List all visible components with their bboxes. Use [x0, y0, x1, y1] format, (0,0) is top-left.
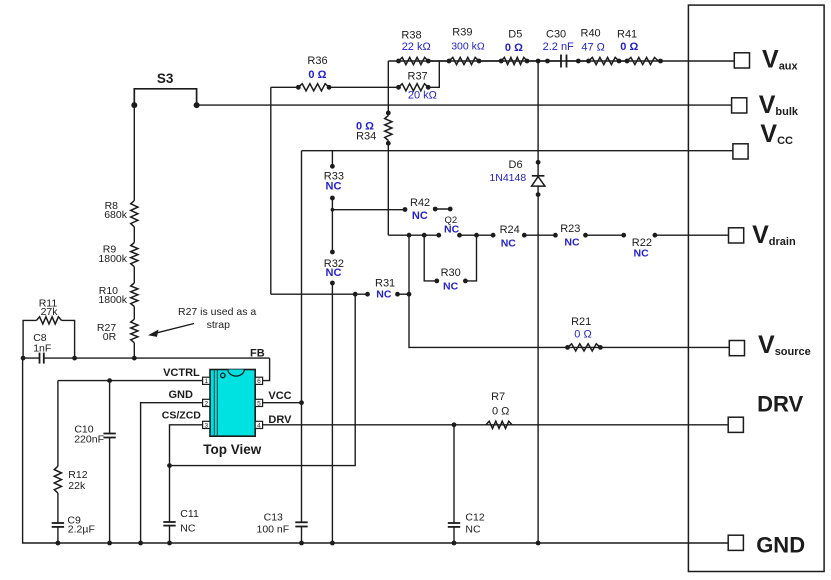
wire GND rail — [23, 358, 729, 543]
wire VCTRL to R12 — [57, 381, 59, 467]
wire D6 vertical — [537, 61, 539, 176]
resistor R8 — [131, 201, 138, 227]
svg-text:R23: R23 — [560, 223, 580, 235]
svg-text:3: 3 — [204, 422, 208, 429]
resistor R39 — [449, 57, 479, 64]
wire R23 to R22 — [586, 234, 624, 236]
svg-text:1800k: 1800k — [98, 253, 127, 265]
wire R36 left vertical — [270, 87, 272, 294]
junction C13 GND — [299, 541, 304, 546]
svg-text:1N4148: 1N4148 — [489, 172, 526, 184]
wire R12 to C9 — [57, 493, 59, 523]
svg-text:0 Ω: 0 Ω — [492, 406, 509, 418]
svg-text:strap: strap — [207, 319, 231, 331]
svg-text:NC: NC — [412, 210, 428, 222]
pad DRV — [728, 417, 743, 432]
pin 1 — [203, 377, 210, 384]
resistor R27 — [131, 319, 138, 343]
svg-text:R36: R36 — [307, 55, 327, 67]
transistor Q2 (NC) — [436, 233, 441, 238]
junction C10 top — [107, 378, 112, 383]
wire D5-C30 — [527, 60, 561, 62]
svg-text:GND: GND — [756, 533, 805, 558]
pin 3 — [203, 421, 210, 428]
resistor R7 — [486, 421, 512, 428]
wire DRV rail — [263, 424, 729, 426]
svg-text:4: 4 — [257, 422, 261, 429]
resistor R10 — [131, 283, 138, 307]
capacitor C12 (NC) — [452, 422, 457, 427]
junction D6 GND — [536, 541, 541, 546]
resistor R22 (NC) — [621, 233, 626, 238]
wire divider chain vertical — [133, 105, 135, 200]
junction C11 GND — [167, 541, 172, 546]
wire R42 row — [332, 209, 405, 211]
svg-text:27k: 27k — [41, 306, 59, 318]
wire S3 step — [134, 89, 196, 105]
svg-text:2.2 nF: 2.2 nF — [543, 41, 574, 53]
junction R33 bottom tee — [331, 208, 335, 212]
wire C9 to GND — [57, 527, 59, 543]
wire R38-R39 — [428, 60, 449, 62]
wire R40-R41 — [619, 60, 627, 62]
pad VCC — [733, 144, 748, 159]
svg-text:NC: NC — [465, 523, 481, 535]
wire CS link to R31 row — [170, 294, 356, 465]
pin 4 — [255, 421, 262, 428]
svg-text:CS/ZCD: CS/ZCD — [162, 410, 202, 422]
junction R11 left — [21, 356, 26, 361]
svg-text:300 kΩ: 300 kΩ — [451, 41, 485, 53]
capacitor C13 — [295, 521, 307, 523]
svg-text:NC: NC — [634, 247, 650, 259]
svg-text:DRV: DRV — [757, 392, 803, 417]
junction CS C11 — [167, 463, 172, 468]
svg-text:2.2µF: 2.2µF — [68, 524, 95, 536]
capacitor C10 — [109, 381, 111, 434]
svg-text:NC: NC — [180, 522, 196, 534]
junction pin5 VCC — [299, 400, 304, 405]
svg-text:1nF: 1nF — [33, 343, 51, 355]
svg-text:NC: NC — [564, 236, 580, 248]
svg-text:C13: C13 — [264, 512, 283, 524]
svg-text:R40: R40 — [581, 27, 601, 39]
wire FB to pin6 — [263, 358, 270, 381]
svg-text:Top View: Top View — [203, 442, 262, 457]
junction C10 GND — [107, 541, 112, 546]
junction C9 GND — [56, 541, 61, 546]
wire R24 to R23 — [524, 234, 555, 236]
svg-text:1800k: 1800k — [98, 294, 127, 306]
junction pin2 GND rail — [138, 541, 143, 546]
svg-text:R30: R30 — [441, 267, 461, 279]
svg-text:0 Ω: 0 Ω — [308, 69, 326, 81]
junction C12 GND — [452, 541, 457, 546]
junction R11 right — [72, 356, 77, 361]
wire pin3 CS/ZCD net — [170, 425, 203, 466]
svg-text:20 kΩ: 20 kΩ — [408, 89, 437, 101]
wire Vbulk rail — [197, 104, 732, 106]
svg-text:R34: R34 — [356, 131, 376, 143]
resistor R31 (NC) — [365, 292, 370, 297]
svg-text:0 Ω: 0 Ω — [505, 42, 523, 54]
capacitor C30 — [545, 59, 550, 64]
wire R33/R32 vertical — [331, 151, 333, 167]
pin 6 — [255, 377, 262, 384]
annotation arrow — [154, 324, 194, 334]
wire R39-D5 — [479, 60, 501, 62]
pad Vaux — [734, 53, 749, 68]
svg-text:NC: NC — [444, 223, 460, 235]
wire pin5 to VCC — [263, 402, 302, 404]
wire VCC vertical — [301, 151, 303, 523]
junction R31 right tee — [407, 292, 412, 297]
svg-text:R42: R42 — [410, 197, 430, 209]
diode D6 — [536, 160, 541, 165]
resistor R24 (NC) — [491, 233, 496, 238]
svg-text:0R: 0R — [103, 331, 117, 343]
svg-text:C30: C30 — [546, 29, 566, 41]
wire FB line — [23, 357, 39, 359]
resistor R40 — [589, 57, 620, 64]
svg-text:R21: R21 — [571, 316, 591, 328]
svg-text:0 Ω: 0 Ω — [620, 41, 638, 53]
wire R37 right leg — [428, 61, 439, 87]
wire R31 row — [271, 293, 368, 295]
wire C30-R40 — [567, 60, 589, 62]
resistor R38 — [399, 57, 429, 64]
svg-text:GND: GND — [169, 389, 194, 401]
svg-text:R7: R7 — [491, 391, 505, 403]
resistor R41 — [627, 57, 658, 64]
svg-text:22k: 22k — [68, 480, 86, 492]
pin 2 — [203, 399, 210, 406]
wire VCC rail — [302, 150, 733, 152]
op-amp U1 controller (Top View) — [210, 370, 255, 437]
wire pin2 GND net — [141, 403, 203, 543]
resistor R23 (NC) — [553, 233, 558, 238]
wire R38 branch vertical — [387, 61, 389, 116]
svg-text:R27 is used as a: R27 is used as a — [178, 306, 256, 318]
resistor R12 — [54, 466, 61, 493]
svg-text:VCC: VCC — [268, 390, 291, 402]
svg-text:C12: C12 — [465, 511, 484, 523]
resistor R9 — [131, 243, 138, 267]
pin 5 — [255, 399, 262, 406]
wire Vsource rail — [409, 235, 729, 347]
svg-text:5: 5 — [257, 400, 261, 407]
svg-text:VCTRL: VCTRL — [163, 367, 200, 379]
resistor R11 — [23, 320, 36, 358]
svg-text:C11: C11 — [180, 508, 199, 520]
svg-text:DRV: DRV — [268, 414, 292, 426]
junction R32 GND — [330, 541, 335, 546]
svg-text:D6: D6 — [509, 159, 523, 171]
svg-text:47 Ω: 47 Ω — [581, 42, 605, 54]
wire R36 to R37 — [329, 86, 398, 88]
wire R22 to Vdrain pad — [655, 234, 729, 236]
connector frame — [688, 5, 824, 571]
svg-text:6: 6 — [257, 378, 261, 385]
junction D6 top — [536, 59, 541, 64]
svg-text:0 Ω: 0 Ω — [574, 329, 591, 341]
svg-text:R38: R38 — [401, 30, 421, 42]
resistor R36 — [271, 86, 299, 88]
svg-text:NC: NC — [326, 181, 342, 193]
svg-text:NC: NC — [376, 289, 392, 301]
svg-text:R37: R37 — [408, 71, 428, 83]
svg-text:NC: NC — [501, 238, 517, 250]
svg-text:100 nF: 100 nF — [256, 523, 289, 535]
resistor R34 — [385, 116, 392, 141]
svg-text:R24: R24 — [500, 224, 520, 236]
junction drain/R31 vertical — [407, 233, 412, 238]
resistor R21 — [568, 344, 601, 351]
diode D5 (0 ohm strap drawn as resistor) — [501, 57, 527, 64]
svg-text:680k: 680k — [104, 209, 128, 221]
junction R27 bottom — [132, 356, 137, 361]
svg-text:22 kΩ: 22 kΩ — [402, 41, 431, 53]
pad Vsource — [729, 341, 744, 356]
resistor R42 (NC) — [403, 207, 408, 212]
pad Vdrain — [729, 228, 744, 243]
capacitor C8 — [39, 353, 41, 364]
resistor R37 — [399, 84, 429, 91]
wire Vdrain row left — [388, 234, 439, 236]
svg-text:R41: R41 — [617, 29, 637, 41]
svg-text:NC: NC — [443, 281, 459, 293]
wire VCTRL line — [58, 380, 203, 382]
resistor R32 (NC) — [330, 250, 335, 255]
junction CS vertical — [353, 292, 358, 297]
pad GND — [728, 535, 743, 550]
capacitor C11 — [169, 466, 171, 522]
svg-text:220nF: 220nF — [74, 434, 104, 446]
svg-text:D5: D5 — [508, 29, 522, 41]
svg-text:1: 1 — [204, 378, 208, 385]
svg-text:R39: R39 — [452, 27, 472, 39]
svg-text:S3: S3 — [157, 71, 174, 86]
junction S3 left — [131, 102, 137, 108]
wire Vaux top rail — [388, 60, 734, 62]
resistor R33 (NC) — [330, 164, 335, 169]
resistor R30 (NC) — [424, 235, 437, 281]
pad Vbulk — [732, 98, 747, 113]
svg-text:FB: FB — [250, 348, 265, 360]
svg-text:2: 2 — [204, 400, 208, 407]
junction S3 right — [194, 102, 200, 108]
svg-text:NC: NC — [326, 267, 342, 279]
wire Q2 to R24 — [460, 234, 494, 236]
capacitor C9 — [52, 522, 64, 524]
